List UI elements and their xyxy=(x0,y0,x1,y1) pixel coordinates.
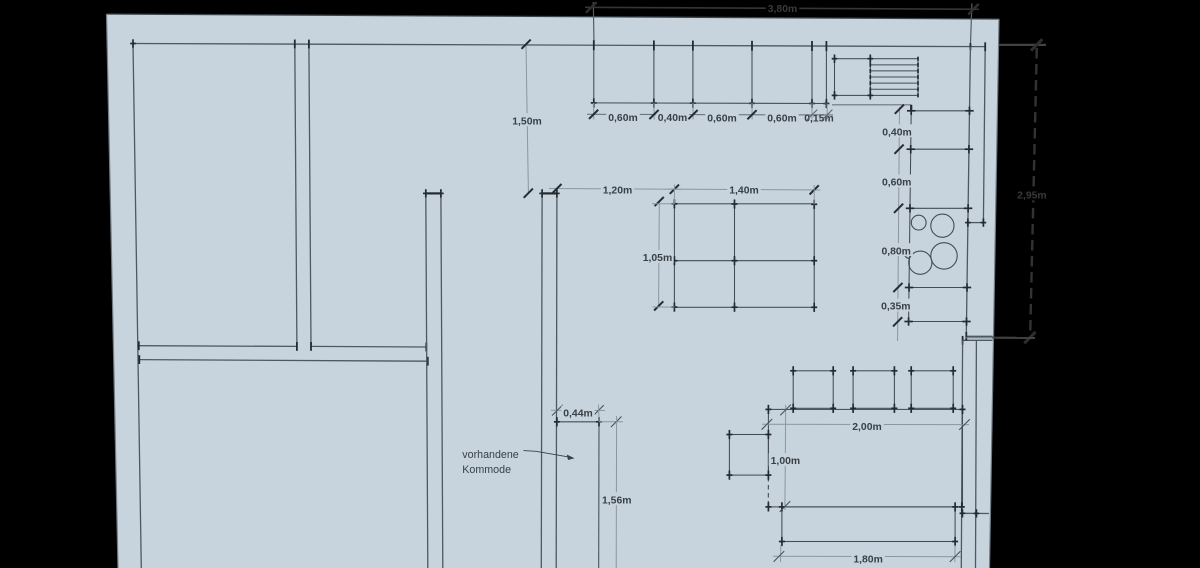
svg-text:vorhandene: vorhandene xyxy=(462,449,519,461)
svg-text:1,00m: 1,00m xyxy=(771,456,800,467)
svg-text:1,56m: 1,56m xyxy=(602,495,631,506)
svg-text:0,60m: 0,60m xyxy=(767,113,796,124)
svg-text:Kommode: Kommode xyxy=(462,464,511,476)
svg-text:0,44m: 0,44m xyxy=(563,409,592,420)
svg-text:0,60m: 0,60m xyxy=(608,113,637,124)
svg-text:1,80m: 1,80m xyxy=(853,554,882,565)
svg-text:0,35m: 0,35m xyxy=(881,302,910,313)
svg-text:0,15m: 0,15m xyxy=(804,114,833,125)
svg-text:1,20m: 1,20m xyxy=(603,186,632,197)
svg-text:1,50m: 1,50m xyxy=(512,116,541,127)
svg-text:1,40m: 1,40m xyxy=(729,185,758,196)
svg-text:0,60m: 0,60m xyxy=(882,178,911,189)
svg-text:1,05m: 1,05m xyxy=(643,253,672,264)
svg-text:0,60m: 0,60m xyxy=(707,113,736,124)
svg-text:0,40m: 0,40m xyxy=(882,127,911,138)
svg-text:2,95m: 2,95m xyxy=(1017,191,1046,202)
svg-text:0,80m: 0,80m xyxy=(881,246,910,257)
svg-text:3,80m: 3,80m xyxy=(768,4,797,15)
svg-text:2,00m: 2,00m xyxy=(852,422,881,433)
svg-text:0,40m: 0,40m xyxy=(658,113,687,124)
